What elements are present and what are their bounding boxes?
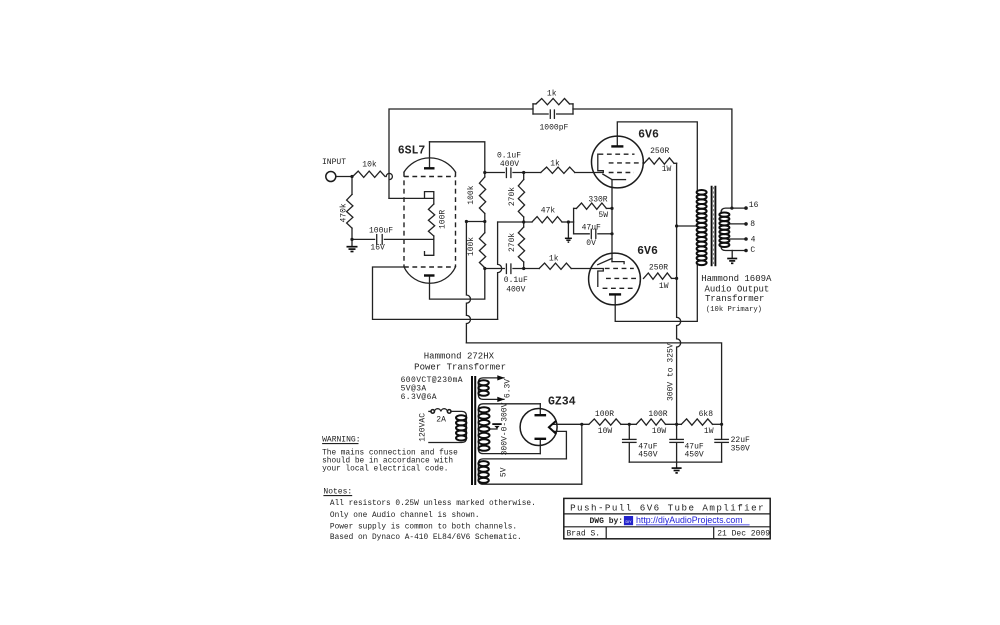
svg-text:600VCT@230mA: 600VCT@230mA [401,376,463,385]
svg-text:DIY: DIY [626,520,633,524]
svg-text:should be in accordance with: should be in accordance with [322,458,453,466]
svg-text:100R: 100R [595,410,614,419]
svg-text:350V: 350V [731,444,750,453]
svg-text:16V: 16V [370,244,385,253]
svg-text:Power supply is common to both: Power supply is common to both channels. [330,524,517,532]
svg-text:Only one Audio channel is show: Only one Audio channel is shown. [330,512,480,520]
svg-text:Hammond 272HX: Hammond 272HX [424,352,495,362]
svg-text:All resistors 0.25W unless mar: All resistors 0.25W unless marked otherw… [330,500,536,508]
svg-text:(10k Primary): (10k Primary) [706,306,762,314]
svg-text:1000pF: 1000pF [539,124,568,133]
svg-text:21 Dec 2009: 21 Dec 2009 [717,529,770,538]
svg-text:270k: 270k [508,233,517,252]
svg-text:450V: 450V [638,450,657,459]
svg-text:1W: 1W [659,282,669,291]
svg-text:DWG by:: DWG by: [590,517,624,526]
svg-text:10k: 10k [362,161,377,170]
svg-text:1k: 1k [550,160,560,169]
svg-text:GZ34: GZ34 [548,396,576,409]
svg-text:http://diyAudioProjects.com: http://diyAudioProjects.com [636,515,743,525]
svg-text:6k8: 6k8 [699,410,714,419]
svg-text:330R: 330R [588,196,607,205]
svg-text:6V6: 6V6 [638,129,659,142]
svg-text:Transformer: Transformer [705,294,764,304]
svg-text:16: 16 [749,201,759,210]
svg-text:Audio Output: Audio Output [705,284,770,294]
svg-text:Hammond 1609A: Hammond 1609A [701,274,772,284]
svg-text:100R: 100R [648,410,667,419]
svg-text:your local electrical code.: your local electrical code. [322,465,448,473]
svg-text:270k: 270k [508,187,517,206]
svg-text:47uF: 47uF [582,223,601,232]
svg-text:8: 8 [750,220,755,229]
svg-text:10W: 10W [598,427,613,436]
svg-text:Brad S.: Brad S. [567,529,601,538]
svg-text:Push-Pull 6V6 Tube Amplifier: Push-Pull 6V6 Tube Amplifier [570,503,765,514]
svg-text:INPUT: INPUT [322,158,346,167]
svg-text:1k: 1k [549,254,559,263]
svg-text:1k: 1k [547,89,557,98]
svg-text:100k: 100k [467,185,476,204]
svg-text:100uF: 100uF [369,226,393,235]
svg-text:6.3V: 6.3V [504,379,513,398]
svg-text:120VAC: 120VAC [418,413,427,442]
svg-text:300V to 325V: 300V to 325V [667,343,676,401]
svg-text:5W: 5W [598,211,608,220]
svg-text:5V: 5V [500,467,509,477]
svg-text:6SL7: 6SL7 [398,145,426,158]
svg-text:0V: 0V [586,239,596,248]
svg-text:450V: 450V [685,450,704,459]
svg-text:Power Transformer: Power Transformer [414,363,506,373]
svg-text:1W: 1W [704,427,714,436]
svg-text:100R: 100R [438,210,447,229]
svg-text:6V6: 6V6 [637,245,658,258]
svg-text:10W: 10W [652,427,667,436]
svg-text:2A: 2A [436,415,446,424]
svg-text:400V: 400V [506,285,525,294]
svg-text:47k: 47k [541,207,556,216]
svg-text:6.3V@6A: 6.3V@6A [401,393,437,402]
svg-text:C: C [750,246,755,255]
svg-text:0.1uF: 0.1uF [504,276,528,285]
svg-text:400V: 400V [500,160,519,169]
svg-text:300V-0-300V: 300V-0-300V [501,402,510,455]
svg-text:Based on Dynaco A-410 EL84/6V6: Based on Dynaco A-410 EL84/6V6 Schematic… [330,534,522,542]
svg-text:250R: 250R [649,264,668,273]
svg-text:1W: 1W [662,165,672,174]
svg-text:250R: 250R [650,147,669,156]
svg-text:The mains connection and fuse: The mains connection and fuse [322,450,458,458]
svg-text:470k: 470k [339,203,348,222]
svg-text:4: 4 [751,235,756,244]
svg-text:100k: 100k [467,237,476,256]
